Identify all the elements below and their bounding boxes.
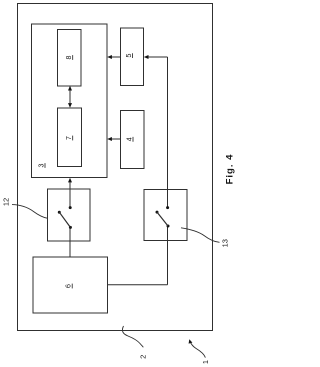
label 5: [126, 53, 133, 58]
arrowhead left into block 3 from 4: [107, 137, 112, 141]
wire 6 to switch 13 horizontal: [108, 284, 168, 286]
block 6: [33, 257, 108, 313]
svg-text:13: 13: [220, 239, 229, 247]
wire 13 to 5 vertical: [167, 57, 169, 208]
label 3: [39, 163, 46, 168]
arrowhead left into block 5: [144, 55, 149, 59]
wire switch 13 down: [167, 226, 169, 285]
outer apparatus box 2: [18, 4, 213, 331]
wire switch 12 to 6: [69, 228, 71, 258]
label 6: [66, 284, 73, 289]
block 8: [58, 30, 82, 87]
arrowhead down into block 7: [68, 103, 72, 108]
arrowhead left into block 3 from 5: [107, 55, 112, 59]
wire 13 to 5 horizontal: [147, 56, 168, 58]
svg-text:8: 8: [66, 55, 73, 59]
svg-text:3: 3: [39, 163, 46, 167]
wire 4 to 3: [110, 138, 121, 140]
label 4: [127, 137, 134, 142]
leader arrow of label 1: [189, 339, 206, 357]
arrowhead up into block 3 from switch 12: [68, 178, 72, 183]
arrowhead up into block 8: [68, 86, 72, 91]
switch box 12: [48, 189, 91, 241]
svg-text:7: 7: [66, 136, 73, 140]
block 5: [121, 28, 144, 86]
wire 3 to switch 12: [69, 182, 71, 208]
switch box 13: [144, 190, 187, 241]
figure caption Fig. 4: [225, 154, 236, 185]
label 7: [66, 136, 73, 141]
svg-text:2: 2: [139, 355, 148, 359]
wire 5 to 3: [110, 56, 121, 58]
label 1: [201, 360, 210, 364]
label 12: [1, 198, 10, 206]
switch 13 contacts and blade: [156, 206, 170, 227]
block 3 (controller enclosure): [32, 24, 108, 178]
label 13: [220, 239, 229, 247]
leader line of label 13: [181, 228, 220, 243]
svg-text:5: 5: [126, 54, 133, 58]
svg-text:Fig. 4: Fig. 4: [225, 154, 236, 185]
block 7: [58, 108, 82, 167]
block 4: [121, 111, 145, 169]
wire double arrow between 8 and 7: [69, 89, 71, 105]
label 2: [139, 355, 148, 359]
svg-text:1: 1: [201, 360, 210, 364]
switch 12 contacts and blade: [58, 206, 72, 229]
leader line of label 12: [12, 205, 47, 219]
svg-text:4: 4: [127, 137, 134, 141]
label 8: [66, 55, 73, 60]
leader line of label 2: [122, 326, 143, 347]
svg-text:12: 12: [1, 198, 10, 206]
svg-text:6: 6: [66, 284, 73, 288]
